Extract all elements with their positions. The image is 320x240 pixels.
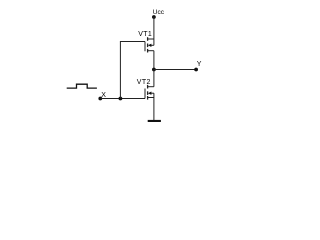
svg-text:VT1: VT1 bbox=[138, 31, 152, 38]
wire: output node to Y terminal bbox=[154, 69, 196, 71]
svg-text:Ucc: Ucc bbox=[153, 9, 165, 16]
svg-text:VT2: VT2 bbox=[137, 79, 151, 86]
wire: VT2 source to ground bbox=[153, 98, 155, 121]
ground bbox=[148, 120, 161, 122]
terminal X bbox=[98, 97, 102, 101]
wire: VT1 source to output node bbox=[153, 51, 155, 70]
transistor VT2 bbox=[145, 85, 154, 100]
node: gate junction bbox=[119, 97, 123, 101]
Ucc terminal dot bbox=[152, 15, 156, 19]
svg-text:Y: Y bbox=[197, 61, 202, 68]
svg-text:X: X bbox=[101, 92, 106, 99]
terminal Y bbox=[194, 68, 198, 72]
wire: junction to VT1 gate bbox=[120, 42, 145, 99]
node: output junction bbox=[152, 68, 156, 72]
transistor VT1 bbox=[145, 37, 154, 52]
wire: output node to VT2 drain bbox=[153, 70, 155, 87]
wire: X to VT2 gate bbox=[100, 98, 145, 100]
input pulse symbol bbox=[67, 84, 97, 88]
wire: Ucc to VT1 drain bbox=[153, 17, 155, 39]
